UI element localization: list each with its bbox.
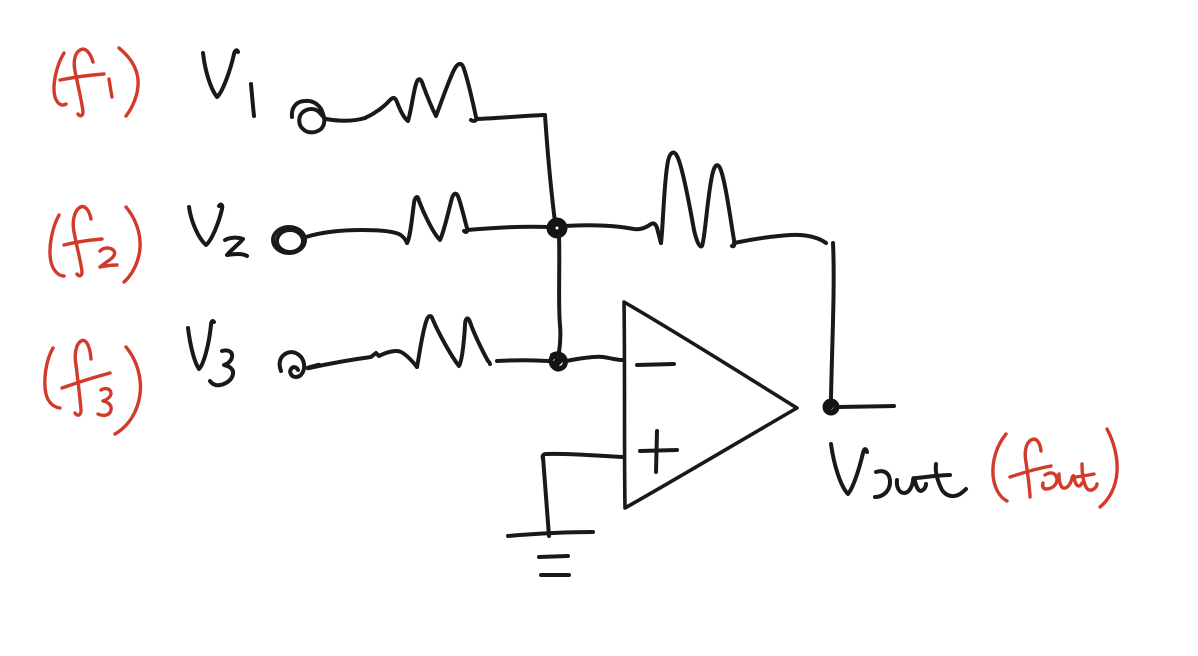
terminal T1 (input V1) bbox=[292, 101, 326, 132]
op-amp minus sign bbox=[637, 364, 674, 365]
wire junction A down to junction B bbox=[559, 236, 560, 352]
wire T3 to R3 bbox=[309, 351, 417, 368]
wire corner down to junction A bbox=[545, 115, 555, 222]
feedback resistor RF bbox=[661, 153, 734, 247]
resistor R2 bbox=[407, 194, 467, 243]
output wire bbox=[838, 406, 894, 407]
junction A (inverting node upper) bbox=[551, 222, 563, 234]
label (f1) red bbox=[54, 48, 138, 116]
wire RF to output corner bbox=[734, 235, 826, 243]
wire op-amp non-inverting input to ground corner bbox=[543, 454, 622, 459]
label V2 bbox=[189, 205, 247, 256]
label (fout) red bbox=[993, 429, 1117, 507]
wire R3 to junction B bbox=[497, 358, 548, 363]
wire junction A to feedback resistor bbox=[565, 223, 661, 243]
wire T3 arrow tick bbox=[308, 365, 319, 368]
label V1 bbox=[203, 50, 254, 116]
wire corner down to output node bbox=[831, 243, 834, 398]
op-amp plus sign bbox=[640, 431, 677, 472]
wire T1 to R1 bbox=[326, 118, 365, 121]
ground symbol bbox=[508, 532, 593, 575]
wire down to ground bbox=[543, 457, 549, 536]
terminal T2 (input V2) bbox=[273, 227, 305, 253]
resistor R1 bbox=[365, 64, 476, 121]
label V3 bbox=[188, 321, 233, 385]
resistor R3 bbox=[417, 316, 490, 367]
junction B (inverting node lower) bbox=[551, 353, 567, 369]
wire R1 to corner bbox=[477, 115, 544, 119]
output node bbox=[826, 402, 837, 413]
terminal T3 (input V3) bbox=[280, 352, 305, 377]
wire T2 to R2 bbox=[306, 230, 407, 243]
label (f3) red bbox=[45, 340, 141, 434]
label Vout bbox=[831, 444, 966, 497]
wire R2 to junction A bbox=[467, 227, 549, 230]
label (f2) red bbox=[50, 207, 140, 282]
op-amp U1 triangle bbox=[624, 302, 797, 508]
wire junction B to op-amp inverting input bbox=[566, 357, 622, 361]
